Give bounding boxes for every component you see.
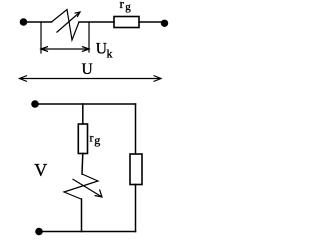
svg-text:g: g bbox=[94, 133, 100, 147]
svg-text:k: k bbox=[107, 47, 113, 61]
svg-text:r: r bbox=[120, 0, 125, 11]
svg-text:g: g bbox=[125, 1, 131, 13]
svg-text:U: U bbox=[82, 61, 93, 78]
svg-text:r: r bbox=[90, 131, 94, 145]
svg-text:V: V bbox=[34, 160, 47, 180]
svg-text:U: U bbox=[96, 40, 107, 57]
